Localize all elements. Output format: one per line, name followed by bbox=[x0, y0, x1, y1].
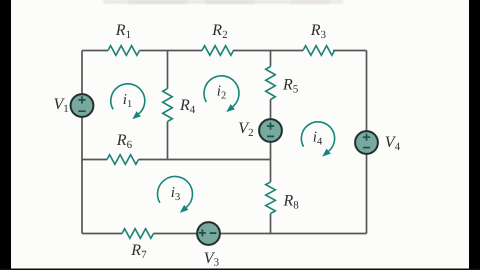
wire top (with gaps for R1 R2 R3) bbox=[82, 50, 367, 52]
wire R8 branch bbox=[270, 160, 272, 234]
resistor R2 bbox=[202, 46, 234, 56]
wire right bbox=[366, 51, 368, 234]
wire left bbox=[81, 51, 83, 234]
resistor R3 bbox=[303, 46, 335, 56]
mesh current arrow i3 bbox=[157, 177, 192, 213]
mesh current arrow i1 bbox=[111, 84, 145, 119]
resistor R1 bbox=[108, 46, 140, 56]
voltage source V2 bbox=[259, 119, 282, 142]
letterbox pillar left bbox=[0, 0, 11, 270]
mesh current arrow i2 bbox=[204, 76, 239, 112]
voltage source V3 bbox=[197, 222, 220, 245]
resistor R6 bbox=[107, 155, 139, 165]
resistor R8 bbox=[266, 182, 276, 214]
resistor R4 bbox=[163, 89, 173, 122]
cropped title remnant (faint smudge top) bbox=[103, 0, 343, 4]
voltage source V4 bbox=[355, 131, 378, 154]
wire bottom (with gap for R7) bbox=[82, 233, 367, 235]
voltage source V1 bbox=[71, 94, 94, 117]
wire middle horizontal (with gap for R6) bbox=[82, 159, 271, 161]
wire R4 branch bbox=[167, 51, 169, 160]
wire R5/V2 branch bbox=[270, 51, 272, 160]
letterbox bar bottom bbox=[0, 269, 480, 270]
mesh current arrow i4 bbox=[301, 122, 334, 157]
letterbox pillar right bbox=[469, 0, 480, 270]
resistor R7 bbox=[122, 229, 154, 239]
resistor R5 bbox=[266, 67, 276, 100]
